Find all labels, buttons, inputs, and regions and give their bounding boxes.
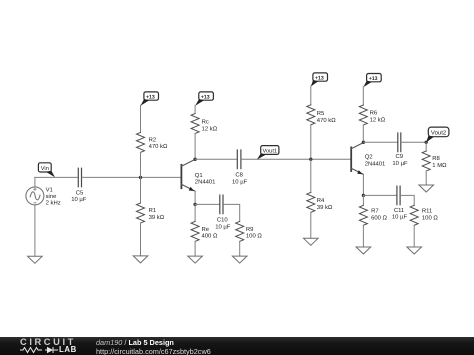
svg-text:C8: C8 (235, 172, 243, 179)
wire +13 to R5 (310, 86, 312, 105)
svg-text:400 Ω: 400 Ω (202, 233, 218, 240)
wire R2 to base node (140, 152, 142, 177)
ground (below Re) (188, 256, 203, 263)
node (Q1 emitter) (193, 203, 196, 206)
svg-text:2N4401: 2N4401 (365, 160, 386, 167)
capacitor C9 (398, 133, 401, 152)
wire C8 to Q2 base (241, 158, 351, 160)
svg-text:C9: C9 (396, 153, 404, 160)
ground (below R8) (419, 185, 434, 192)
wire C10 to R9 (224, 204, 240, 221)
wire +13 to Rc (194, 105, 196, 113)
svg-text:+13: +13 (201, 94, 210, 100)
svg-text:2N4401: 2N4401 (195, 179, 216, 186)
svg-text:R6: R6 (370, 110, 378, 117)
svg-text:sine: sine (46, 193, 58, 200)
wire base node to R1 (140, 177, 142, 203)
node (Vout2) (425, 141, 428, 144)
resistor R7 (359, 205, 367, 225)
wire +13 to R2 (140, 105, 142, 132)
power flag +13 (R6) (363, 74, 381, 88)
svg-text:10 µF: 10 µF (232, 179, 248, 186)
CircuitLab logo text CIRCUIT (20, 338, 76, 346)
svg-text:100 Ω: 100 Ω (246, 233, 262, 240)
svg-text:10 µF: 10 µF (215, 223, 231, 230)
node label Vout1 (257, 146, 279, 160)
svg-text:+13: +13 (146, 94, 155, 100)
svg-text:470 kΩ: 470 kΩ (317, 117, 336, 124)
ground (below R11) (407, 247, 422, 254)
wire node to R4 (310, 159, 312, 192)
wire emitter node to Re (194, 204, 196, 221)
svg-text:R1: R1 (149, 207, 157, 214)
wire R9 to ground (239, 241, 241, 256)
CircuitLab logo glyph (resistor + diode) (20, 345, 64, 355)
resistor R11 (410, 205, 418, 225)
resistor Re (191, 221, 199, 241)
svg-text:1 MΩ: 1 MΩ (432, 162, 447, 169)
resistor R8 (422, 151, 430, 171)
wire emitter to C10 (195, 203, 219, 205)
capacitor C8 (237, 150, 241, 169)
wire V1 bottom lead (34, 205, 36, 257)
svg-text:C11: C11 (394, 207, 404, 214)
footer url text (96, 348, 211, 355)
wire V1 top lead (34, 177, 36, 187)
label V1 sine 2 kHz (46, 187, 61, 207)
wire emitter to C11 (363, 194, 396, 196)
svg-text:12 kΩ: 12 kΩ (370, 116, 386, 123)
footer bar (0, 337, 474, 355)
wire R1 to ground (140, 223, 142, 256)
ground (below R7) (356, 247, 371, 254)
resistor R4 (307, 192, 315, 212)
svg-text:+13: +13 (315, 75, 324, 81)
svg-text:R5: R5 (317, 110, 325, 117)
svg-text:R9: R9 (246, 226, 254, 233)
label C5 10 uF (71, 189, 87, 203)
svg-text:10 µF: 10 µF (392, 214, 408, 221)
ground (below R9) (232, 256, 247, 263)
wire C11 to R11 (401, 195, 415, 205)
transistor Q2 (351, 143, 363, 175)
wire C5 to Q1 base (82, 176, 181, 178)
node (Vout1 / Q2 base) (309, 158, 312, 161)
ground (below R4) (304, 238, 319, 245)
wire emitter node to R7 (362, 195, 364, 205)
node label Vin (38, 163, 55, 178)
svg-text:39 kΩ: 39 kΩ (149, 214, 165, 221)
svg-text:Re: Re (202, 226, 210, 233)
svg-text:+13: +13 (369, 76, 378, 82)
wire Q1 emitter (194, 191, 196, 204)
svg-text:V1: V1 (46, 187, 53, 194)
ground (below V1) (28, 256, 43, 263)
svg-text:R11: R11 (422, 208, 432, 215)
wire Q2 emitter (362, 174, 364, 195)
ground (below R1) (133, 256, 148, 263)
svg-text:Q1: Q1 (195, 172, 203, 179)
resistor R5 (307, 105, 315, 125)
power flag +13 (Rc) (195, 92, 213, 106)
svg-text:C5: C5 (76, 189, 84, 196)
svg-text:R4: R4 (317, 197, 325, 204)
wire R6 to Q2 collector node (362, 125, 364, 142)
node (Q2 collector) (362, 141, 365, 144)
wire V1 to C5 (35, 176, 78, 178)
svg-text:12 kΩ: 12 kΩ (202, 126, 218, 133)
footer title text (96, 339, 174, 347)
svg-text:2 kHz: 2 kHz (46, 200, 61, 207)
svg-text:100 Ω: 100 Ω (422, 215, 438, 222)
wire collector to C8 (195, 158, 237, 160)
resistor R1 (137, 203, 145, 223)
svg-text:R2: R2 (149, 136, 157, 143)
wire R8 to ground (425, 171, 427, 185)
power flag +13 (R2) (141, 92, 159, 106)
node (Q2 emitter) (362, 194, 365, 197)
resistor Rc (191, 114, 199, 134)
resistor R6 (359, 105, 367, 125)
svg-text:Vout1: Vout1 (263, 148, 278, 154)
power flag +13 (R5) (311, 73, 328, 87)
svg-text:10 µF: 10 µF (392, 160, 408, 167)
svg-text:Rc: Rc (202, 119, 209, 126)
svg-text:39 kΩ: 39 kΩ (317, 204, 333, 211)
wire R11 to ground (413, 225, 415, 247)
svg-text:600 Ω: 600 Ω (371, 215, 387, 222)
node (Q1 collector) (193, 158, 196, 161)
svg-text:Vout2: Vout2 (431, 130, 447, 137)
wire C9 to Vout2 node (401, 141, 426, 143)
svg-text:10 µF: 10 µF (71, 196, 87, 203)
svg-text:470 kΩ: 470 kΩ (149, 143, 168, 150)
resistor R2 (137, 132, 145, 152)
capacitor C5 (78, 168, 81, 187)
svg-text:Vin: Vin (41, 165, 49, 172)
wire R5 to Vout1 node (310, 125, 312, 160)
voltage source V1 (26, 187, 44, 205)
svg-text:R8: R8 (432, 155, 440, 162)
node (base divider junction) (139, 176, 142, 179)
svg-text:R7: R7 (371, 208, 379, 215)
svg-text:Q2: Q2 (365, 154, 373, 161)
transistor Q1 (181, 159, 195, 191)
capacitor C11 (397, 186, 400, 205)
wire R7 to ground (362, 225, 364, 247)
capacitor C10 (220, 195, 223, 214)
wire collector to C9 (363, 141, 397, 143)
wire Rc to collector node (194, 134, 196, 160)
wire Vout2 node to R8 (425, 142, 427, 151)
wire Re to ground (194, 241, 196, 256)
node label Vout2 (426, 127, 449, 142)
wire +13 to R6 (362, 87, 364, 105)
svg-text:C10: C10 (217, 217, 229, 224)
wire R4 to ground (310, 212, 312, 238)
resistor R9 (236, 221, 244, 241)
